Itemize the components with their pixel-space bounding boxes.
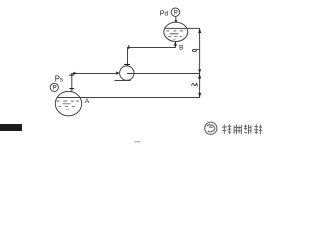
tank A liquid dash row 2 xyxy=(63,103,71,105)
svg-text:P: P xyxy=(174,9,178,16)
dimension line vertical xyxy=(199,28,201,98)
svg-text:B: B xyxy=(179,44,184,51)
char 4 xyxy=(254,124,262,134)
flange tick at tank A top xyxy=(69,88,74,90)
tank B liquid dash row 4 xyxy=(173,38,176,40)
dimension arrow up below pump level xyxy=(198,74,201,79)
discharge pipe horizontal xyxy=(127,47,176,49)
watermark black bar bottom left xyxy=(0,124,22,131)
svg-text:Pd: Pd xyxy=(160,8,169,17)
watermark text 株洲鸿新 pseudo glyphs xyxy=(222,124,262,134)
dimension arrow up at tank B level xyxy=(198,28,201,33)
discharge pipe vertical xyxy=(127,47,129,66)
rotated label d on upper span xyxy=(193,49,199,51)
gauge stem on tank B xyxy=(175,16,177,22)
tank A liquid dashes row 3 xyxy=(58,105,75,107)
tank B vessel xyxy=(164,22,188,41)
pump outlet centre line to dimension line xyxy=(127,73,200,75)
char 3 xyxy=(244,125,251,134)
svg-text:Ps: Ps xyxy=(55,75,63,84)
svg-text:P: P xyxy=(53,85,57,92)
pump circle xyxy=(120,66,134,80)
suction pipe horizontal xyxy=(71,73,116,75)
tank A liquid dashes row 1 xyxy=(57,100,79,102)
tank A vessel xyxy=(55,91,81,115)
tank B liquid level line extended to dimension line xyxy=(165,27,200,29)
tank A liquid dash row 4 xyxy=(66,108,69,110)
char 1 xyxy=(222,125,231,135)
suction flow arrow near corner xyxy=(74,72,77,75)
gauge stem nub xyxy=(175,20,178,22)
tank A liquid level line extended to dimension line xyxy=(57,97,200,99)
suction pipe vertical xyxy=(71,73,73,92)
dimension arrow down at pump level xyxy=(198,69,201,73)
rotated label s on lower span xyxy=(192,83,198,85)
pump inlet arrow xyxy=(116,71,119,74)
tank B liquid dashes row 2 xyxy=(170,33,179,35)
tank B liquid dashes row 1 xyxy=(166,30,183,32)
flange tick below suction corner xyxy=(69,74,74,76)
flange tick after discharge corner xyxy=(128,45,130,49)
faint page dash bottom centre xyxy=(135,141,141,142)
tank B inlet arrow xyxy=(174,42,176,47)
pump base tangent line xyxy=(114,80,130,82)
pressure gauge Ps circle xyxy=(50,83,58,91)
tank B liquid dashes row 3 xyxy=(168,35,182,37)
watermark logo icon xyxy=(205,122,217,134)
svg-text:A: A xyxy=(85,98,90,105)
flange tick above pump xyxy=(124,64,130,66)
dimension arrow down at tank A level xyxy=(198,93,201,97)
pressure gauge Pd circle xyxy=(171,8,179,16)
char 2 xyxy=(234,125,242,135)
